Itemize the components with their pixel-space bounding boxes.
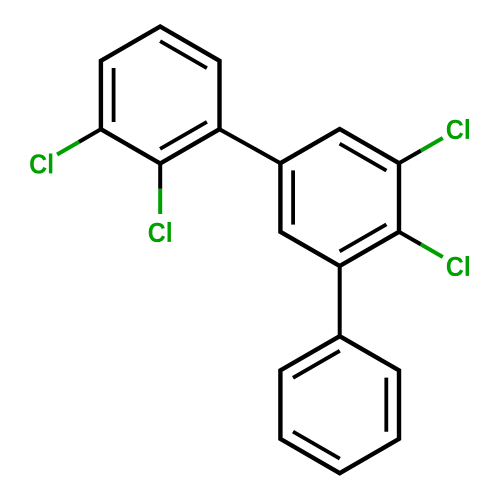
ring C double bond inner line (bottom-left edge) — [293, 432, 340, 459]
benzene ring B (centre-right) outline — [280, 129, 399, 266]
biphenyl bond ring B to ring C — [338, 266, 342, 336]
C-Cl bond to left Cl (black half) — [79, 129, 101, 142]
C-Cl bond to bottom-right Cl (green half) — [421, 244, 443, 257]
benzene ring C (bottom) outline — [280, 336, 399, 473]
ring B double bond inner line (top-right edge) — [340, 144, 387, 171]
Cl label left — [30, 153, 52, 173]
ring B double bond inner line (left edge) — [291, 170, 295, 224]
ring A double bond inner line (left edge) — [112, 68, 116, 122]
ring C double bond inner line (top-left edge) — [293, 351, 340, 378]
ring B double bond inner line (bottom-right edge) — [340, 224, 387, 251]
C-Cl bond to top-right Cl (black half) — [399, 151, 421, 164]
benzene ring A (top-left) outline — [101, 27, 220, 164]
C-Cl bond to left Cl (green half) — [57, 142, 79, 155]
Cl label top-right — [447, 119, 469, 139]
ring C double bond inner line (right edge) — [384, 378, 388, 432]
biphenyl bond ring A to ring B — [220, 129, 281, 163]
C-Cl bond to top-right Cl (green half) — [421, 138, 443, 151]
ring A double bond inner line (top-right edge) — [160, 41, 207, 68]
Cl label bottom of ring A — [149, 222, 171, 242]
C-Cl bond to bottom Cl (green half) — [158, 189, 162, 214]
C-Cl bond to bottom Cl (black half) — [158, 164, 162, 189]
ring A double bond inner line (bottom-right edge) — [160, 122, 207, 149]
C-Cl bond to bottom-right Cl (black half) — [399, 232, 421, 245]
Cl label right — [447, 256, 469, 276]
